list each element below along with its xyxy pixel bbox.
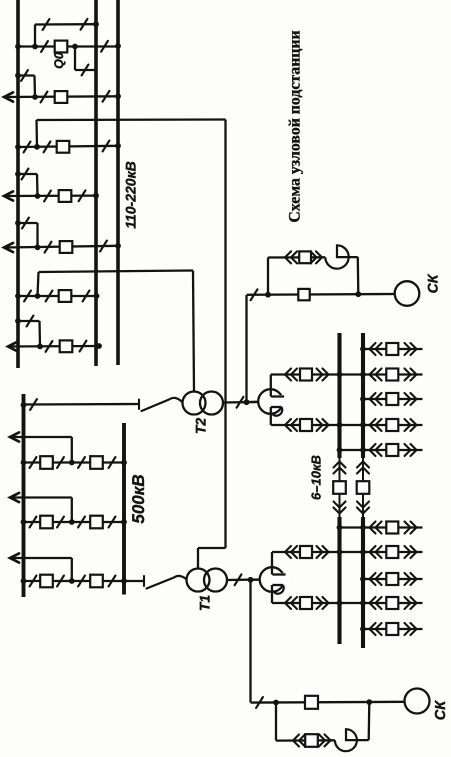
wire CK2 loop bottom [276,739,335,742]
disconnector T2 blade [142,400,170,412]
wire 500kV row row3 [24,580,145,582]
junction F6/busB [360,626,366,632]
breaker row2 Q1 [40,516,53,529]
disconnector bay1 QS3 [43,19,50,30]
disconnector T2sec QS [237,397,244,408]
split reactor LR2 (T2) gap [271,395,287,408]
wire reactor LR1 upper row branch [272,551,423,553]
junction row3/L4 [21,578,27,584]
disconnector bay4 QS2 [79,190,86,201]
disconnector CK2 QS [256,697,263,708]
disconnector T1 blade [147,578,175,589]
disconnector bay1 QS1 [41,41,48,52]
breaker bay4 Q [59,190,72,202]
junction reactor LR2 upper row/busA [337,372,343,378]
disconnector bay5 QS1 [45,242,52,253]
wire bay1 link drop [34,25,36,47]
split reactor LR2 (T2) upper tap [271,395,284,397]
sectionalizer bus A lower contacts [334,502,346,508]
drawout breaker F4 [370,522,376,534]
junction bay2/L3 [115,93,121,99]
wire sectionalizer bus B through [362,458,364,517]
synchronous condenser CK2 [405,689,430,714]
wire row3 branch drop [71,558,73,581]
wire CK1 loop top [268,256,325,259]
junction F1/busB [360,346,366,352]
line arrow bay5 [4,243,13,252]
wire reactor LR2 upper branch riser [270,375,272,397]
transformer T2 winding 2 [200,392,223,415]
wire bay7 link drop [38,321,41,346]
drawout breaker F2 [370,393,376,405]
node bay7 tap [37,344,43,350]
svg-text:Т2: Т2 [193,418,209,435]
wire bay4 bypass link [18,173,37,175]
junction reactor LR2 lower row/busB [360,422,366,428]
sectionalizer bus B upper contacts [357,462,369,468]
disconnector bay2 QS2 [103,91,110,102]
disconnector bay6 QS3 [83,291,90,302]
junction reactor LR1 upper row/busA [337,549,343,555]
transformer T1 winding 1 [187,569,210,592]
wire CK1 loop return [357,257,360,294]
disconnector bay6 QS1 [24,291,31,302]
breaker row3 Q2 [90,575,103,588]
breaker row3 Q1 [40,575,53,588]
wire reactor LR1 input [251,578,260,581]
junction F3/busB [360,447,366,453]
junction bay7 link/L1 [15,318,21,324]
disconnector bay7 QS2 [80,341,87,352]
wire 500kV row row2 [24,521,125,523]
svg-text:СК: СК [433,700,449,720]
wire bay2 bypass link [18,74,35,76]
wire row3 line branch [10,557,72,559]
junction bay7/L2 [96,343,102,349]
wire T1 connector vertical [224,120,226,549]
wire T1 switch to T1 [174,576,187,580]
wire reactor LR2 upper row branch [271,373,423,375]
disconnector bay2 QS3 [21,70,28,81]
split reactor LR1 (T1) lower arc [274,585,284,594]
wire reactor LR1 upper branch riser [271,552,273,575]
breaker Q0 [55,41,68,53]
disconnector row3 QS3 [78,576,85,587]
wire row1 line branch [10,436,72,438]
wire feeder F4 [340,526,423,528]
drawout breaker reactor LR2 upper row right [370,369,376,381]
wire row3 stub to T1 switch [143,580,145,582]
disconnector row3 QS1 [30,576,37,587]
junction bay5 link/L1 [15,220,21,226]
node T1sec junction [248,577,254,583]
wire bay4 feeder row [4,194,96,197]
disconnector row1 QS4 [109,457,116,468]
drawout breaker reactor LR2 upper row left [285,369,291,381]
junction reactor LR2 lower row/busA [337,422,343,428]
disconnector row1 QS1 [30,457,37,468]
disconnector bay5 QS2 [100,241,107,252]
wire CK1 loop riser [267,258,269,295]
split reactor LR2 (T2) lower tap [271,406,282,408]
junction bay4 link/L1 [15,171,21,177]
breaker bay2 Q [55,91,68,103]
split reactor LR2 (T2) body [258,389,283,414]
wire reactor LR1 lower branch drop [271,585,273,603]
breaker bay6 Q [59,290,72,302]
wire row2 branch drop [71,498,73,523]
wire bay7 feeder row [8,345,99,348]
breaker CK1 Q [298,289,309,300]
node bay2 tap [32,94,38,100]
junction row3/L5 [121,578,127,584]
svg-text:СК: СК [425,273,441,293]
line arrow bay7 [8,342,17,351]
junction bay2 link/L1 [15,73,21,79]
disconnector bay2 QS1 [41,92,48,103]
wire bay1 upper link [35,23,96,26]
disconnector bay4 QS3 [22,169,29,180]
junction bay4/L2 [93,193,99,199]
wire reactor LR2 lower branch drop [270,407,272,425]
bus L3 (110-220kV main bus B) [116,0,120,365]
wire bay5 link drop [36,223,38,247]
bus L5 (500kV bus B) [122,423,126,595]
wire bay7 bypass link [18,320,40,322]
breaker bay3 Q [57,141,70,153]
disconnector bay5 QS3 [22,218,29,229]
node CK2 b [366,699,372,705]
wire bay1 main row [18,45,118,47]
wire bay3 main row [18,146,118,147]
disconnector row3 QS4 [109,576,116,587]
line arrow bay4 [4,191,13,200]
wire CK1 main [247,293,395,296]
junction bay3/L1 [15,144,21,150]
node CK1 b [355,291,361,297]
drawout breaker reactor LR1 lower row left [285,597,291,609]
bus 6-10kV B upper segment [361,333,365,458]
wire reactor LR2 lower row branch [271,424,423,426]
wire T2 secondary lead [223,401,258,404]
node T2sec junction [244,399,250,405]
split reactor LR1 (T1) upper tap [272,573,285,575]
disconnector bay6 QS2 [46,291,53,302]
drawout breaker CK1 bypass [285,251,291,263]
wire sectionalizer bus A through [339,458,341,517]
wire T1sec drop to CK [249,580,251,703]
breaker bay5 Q [60,241,73,253]
drawout breaker CK2 bypass [293,735,299,747]
drawout breaker reactor LR1 upper row right [370,546,376,558]
wire CK2 loop return [368,702,371,740]
sectionalizer bus A breaker [333,481,346,494]
wire T1 riser up [35,120,38,147]
breaker row1 Q1 [40,456,53,469]
junction bay1/L3 [115,43,121,49]
bus L2 (110-220kV main bus A) [94,0,98,366]
wire bay1 subloop drop [74,47,76,71]
drawout breaker F3 [370,444,376,456]
disconnector row2 QS1 [30,517,37,528]
disconnector bay1 QS4 [81,19,88,30]
reactor CK1 (hook) [325,245,358,268]
drawout breaker reactor LR1 lower row right [370,597,376,609]
junction bay6/L1 [15,293,21,299]
sectionalizer bus A upper contacts [334,462,346,468]
junction bay5/L3 [115,243,121,249]
breaker CK2 Q [305,696,318,709]
drawout breaker reactor LR2 lower row right [370,419,376,431]
bus 6-10kV A lower segment [337,517,341,644]
drawout breaker reactor LR2 lower row left [285,419,291,431]
svg-text:Схема узловой подстанции: Схема узловой подстанции [287,30,304,222]
bus L4 (500kV bus A) [22,394,26,597]
svg-text:500кВ: 500кВ [129,474,148,523]
breaker row1 Q2 [90,456,103,469]
junction reactor LR1 lower row/busB [360,600,366,606]
disconnector row2 QS4 [109,517,116,528]
wire T1 secondary lead [227,578,260,581]
wire bay5 feeder row [4,246,118,248]
bus 6-10kV A upper segment [337,333,341,458]
node bay3 T1-tap [34,144,40,150]
wire bay2 feeder row [4,95,118,98]
bus L1 (110-220kV bypass bus) [16,0,20,368]
line arrow bay2 [4,92,13,101]
disconnector bay7 QS3 [27,316,34,327]
junction T2feed/L4 [21,402,27,408]
node row2 mid [69,519,75,525]
wire row1 branch drop [71,437,73,463]
split reactor LR1 (T1) lower tap [272,584,283,586]
junction bay3/L3 [115,143,121,149]
disconnector bay4 QS1 [44,191,51,202]
disconnector T2 contact tick [138,400,140,410]
svg-text:Q0: Q0 [52,52,66,69]
node CK1 a [265,292,271,298]
disconnector row3 QS2 [57,576,64,587]
synchronous condenser CK1 [395,281,420,306]
node bay5 tap [35,244,41,250]
node bay1 a (x35) [32,44,38,50]
disconnector row1 QS3 [78,457,85,468]
sectionalizer bus B breaker [357,481,370,494]
junction reactor LR1 upper row/busB [360,549,366,555]
wire feeder F2 [363,398,423,400]
wire feeder F6 [363,628,423,630]
disconnector bay7 QS1 [46,341,53,352]
disconnector row2 QS3 [78,517,85,528]
svg-text:6–10кВ: 6–10кВ [309,455,324,500]
junction F4/busA [337,525,343,531]
wire T2 feed from L4 [24,403,140,406]
disconnector row1 QS2 [57,457,64,468]
node row3 mid [69,578,75,584]
wire CK2 loop drop [275,703,277,741]
wire T2 riser up [38,272,39,296]
wire bay4 link drop [36,174,39,196]
disconnector bay3 QS2 [44,142,51,153]
wire bay1 subloop to L2 [75,69,96,71]
junction row1/L5 [121,460,127,466]
node bay6 T2-tap [35,293,41,299]
disconnector bay3 QS1 [24,142,31,153]
junction bay1 link/L2 [93,21,99,27]
wire T1 connector horizontal [37,118,226,121]
split reactor LR1 (T1) body [260,567,285,592]
junction row1/L4 [21,460,27,466]
drawout breaker F1 [370,343,376,355]
disconnector T1 contact tick [143,576,145,586]
disconnector bay1 QS5 [82,65,89,76]
wire feeder F3 [340,449,423,451]
wire T2 switch to T2 [169,398,183,403]
node bay4 tap [35,193,41,199]
reactor CK2 (hook) [335,729,369,751]
junction F5/busB [360,576,366,582]
wire 500kV row row1 [24,461,125,463]
bus 6-10kV B lower segment [361,517,365,648]
split reactor LR2 (T2) lower arc [273,407,283,416]
wire T2 connector drop [193,271,194,392]
junction bay6/L2 [94,293,100,299]
wire T1 connector jog [198,547,226,549]
line arrow row2 [10,493,19,502]
drawout breaker reactor LR1 upper row left [285,546,291,558]
junction reactor LR2 upper row/busB [360,372,366,378]
node CK2 a [273,700,279,706]
node bay1 b (x75) [72,44,78,50]
wire reactor LR1 lower row branch [272,602,423,604]
split reactor LR1 (T1) gap [273,573,289,586]
breaker bay7 Q [60,340,73,352]
svg-text:Т1: Т1 [197,595,213,612]
wire bay6 main row [18,295,97,297]
sectionalizer bus B lower contacts [357,502,369,508]
wire T2 connector horizontal [39,271,194,273]
breaker row2 Q2 [90,516,103,529]
drawout breaker F6 [370,623,376,635]
wire bay5 bypass link [18,222,38,224]
wire feeder F5 [363,578,423,580]
junction bay1/L1 [15,44,21,50]
wire CK2 main [251,701,405,704]
disconnector bay3 QS3 [103,141,110,152]
wire T2sec riser to CK [245,295,247,402]
disconnector T1sec QS [235,574,242,585]
node row1 mid [69,460,75,466]
drawout breaker F5 [370,573,376,585]
disconnector CK1 QS [251,289,258,300]
wire reactor LR2 input [247,401,258,404]
wire bay2 link drop [33,76,36,98]
svg-text:110-220кВ: 110-220кВ [123,161,139,229]
junction row2/L5 [121,519,127,525]
junction F2/busB [360,396,366,402]
wire feeder F1 [363,348,423,350]
disconnector bay1 QS2 [101,41,108,52]
disconnector row2 QS2 [57,517,64,528]
transformer T2 winding 1 [183,392,206,415]
line arrow row3 [10,553,19,562]
junction F3/busA [337,447,343,453]
disconnector T2feed QS [30,399,37,410]
wire row2 line branch [10,496,72,498]
transformer T1 winding 2 [204,569,227,592]
wire T1 connector drop [197,548,199,569]
line arrow row1 [10,432,19,441]
junction F4/busB [360,525,366,531]
junction reactor LR1 lower row/busA [337,600,343,606]
junction row2/L4 [21,519,27,525]
